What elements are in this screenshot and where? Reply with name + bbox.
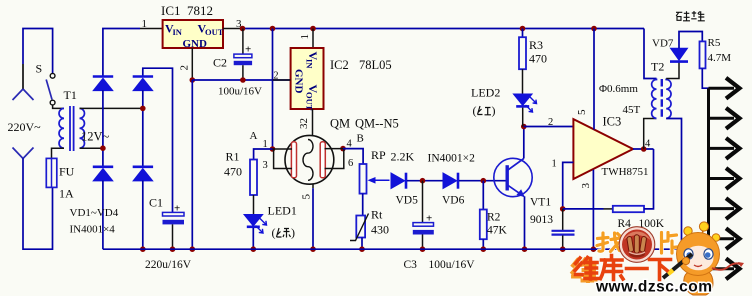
transformer T2 <box>651 60 671 120</box>
junction gnd line bus <box>190 246 196 252</box>
wire top bus down to node A <box>272 29 274 150</box>
svg-text:RP: RP <box>371 148 386 162</box>
watermark mascot <box>663 222 744 295</box>
diode VD5 <box>391 173 418 207</box>
svg-text:5: 5 <box>576 109 588 115</box>
transformer T1 <box>59 88 84 151</box>
wire node A pin3 stub <box>274 149 292 169</box>
wire VD5 to VD6 <box>407 180 443 182</box>
wire R1 to LED1 <box>253 195 255 215</box>
potentiometer RP 2.2K <box>360 148 415 194</box>
svg-text:OUT: OUT <box>305 92 315 111</box>
capacitor at IC3 pin1 <box>552 209 575 249</box>
svg-text:QM: QM <box>330 117 350 131</box>
capacitor C1 220u/16V <box>149 196 184 250</box>
watermark zhao xin pian logo <box>597 227 677 263</box>
junction Rt bus <box>359 246 365 252</box>
transistor VT1 9013 <box>494 158 553 226</box>
wire sensor bottom lead to bus <box>312 184 314 188</box>
svg-text:12V~: 12V~ <box>81 130 110 144</box>
wire VD7 anode to R5 <box>679 32 702 49</box>
svg-text:2: 2 <box>548 117 553 128</box>
svg-text:IN: IN <box>173 27 183 37</box>
svg-text:100u/16V: 100u/16V <box>218 86 262 98</box>
LED2 red <box>471 86 537 127</box>
svg-text:1A: 1A <box>59 187 74 201</box>
svg-text:TWH8751: TWH8751 <box>602 166 649 178</box>
ground bus <box>103 248 682 250</box>
badge red circle chip logo <box>619 227 655 263</box>
svg-text:IC3: IC3 <box>603 115 622 129</box>
svg-text:R3: R3 <box>529 38 543 52</box>
junction sensor bottom bus <box>310 246 316 252</box>
wire node B to RP top <box>343 149 363 164</box>
IC2 78L05 regulator <box>291 48 392 111</box>
node A junction <box>270 146 276 152</box>
svg-text:47K: 47K <box>487 225 508 237</box>
wire gnd node to IC2 pin2 <box>192 79 290 81</box>
discharge electrode bus with arrows <box>709 78 740 279</box>
svg-text:FU: FU <box>59 165 75 179</box>
svg-text:C1: C1 <box>149 196 163 210</box>
diode VD3 bridge col1 bottom <box>93 167 113 181</box>
wire R3 to LED2 <box>522 69 524 94</box>
top bus +12V <box>243 28 645 30</box>
capacitor C3 100u/16V <box>413 181 434 250</box>
thermistor Rt 430 <box>350 208 389 241</box>
wire IC3 pin5 <box>593 29 595 130</box>
wire bridge col1 top to IC1 pin1 <box>103 29 140 77</box>
wire R5 to electrode bus <box>702 68 708 88</box>
wire sensor pin4 stub to node B <box>325 148 344 150</box>
svg-text:100u/16V: 100u/16V <box>429 259 476 271</box>
wire IC1 pin2 GND down <box>191 48 193 80</box>
svg-text:470: 470 <box>529 52 547 66</box>
wire T1 secondary top to bridge col2 midpoint <box>80 107 143 109</box>
svg-text:VD6: VD6 <box>442 195 465 207</box>
junction output T2 primary <box>641 146 647 152</box>
wire VD6 to VT1 base <box>459 180 506 182</box>
wire pin1 node to R4 <box>563 208 604 210</box>
junction R2 bus <box>481 246 487 252</box>
junction col1 midpoint <box>100 145 106 151</box>
svg-text:QM--N5: QM--N5 <box>355 117 399 131</box>
plug top prong <box>13 64 34 100</box>
wire gnd node down to bus <box>191 80 193 249</box>
wire IC2 pin1 lead <box>312 29 314 49</box>
svg-text:9013: 9013 <box>530 214 553 226</box>
svg-text:3: 3 <box>263 160 268 171</box>
svg-text:OUT: OUT <box>205 27 224 37</box>
resistor R5 4.7M <box>700 37 732 68</box>
junction C3 node <box>420 178 426 184</box>
wire node A pin1 stub <box>273 148 293 150</box>
diode VD2 bridge col2 top <box>133 77 153 91</box>
wire bridge col2 bottom to bus <box>142 181 144 250</box>
wire sensor pin6 stub <box>325 149 344 169</box>
svg-text:IN4001×4: IN4001×4 <box>70 224 116 236</box>
diode VD4 bridge col2 bottom <box>133 167 153 181</box>
svg-text:3: 3 <box>580 183 592 189</box>
svg-text:IC2: IC2 <box>330 58 349 72</box>
svg-text:B: B <box>357 133 364 145</box>
junction VT1 emitter bus <box>522 246 528 252</box>
wire T2 secondary bottom down <box>666 119 681 250</box>
svg-text:32: 32 <box>298 118 310 129</box>
junction col2 midpoint <box>140 106 146 112</box>
svg-text:1: 1 <box>142 18 148 30</box>
junction IC3 pin1 node <box>560 206 566 212</box>
svg-text:C3: C3 <box>404 259 418 271</box>
junction IC1 gnd node <box>190 77 196 83</box>
wire T2 secondary top to VD7 <box>666 63 679 79</box>
resistor R1 470 <box>224 150 257 196</box>
op-amp IC3 TWH8751 <box>573 115 648 180</box>
junction LED1 bus <box>251 246 257 252</box>
junction pin3 bus <box>591 246 597 252</box>
wire node A to R1 <box>254 149 273 160</box>
svg-text:7812: 7812 <box>187 3 213 18</box>
svg-text:GND: GND <box>183 38 208 50</box>
wire IC2 pin2 black segment <box>273 79 291 81</box>
wire bridge col2 middle <box>142 90 144 167</box>
svg-text:): ) <box>492 104 496 118</box>
svg-text:IC1: IC1 <box>161 3 181 18</box>
wire LED2 node to IC3 pin2 <box>524 126 574 128</box>
LED1 green <box>244 204 297 250</box>
svg-text:VD5: VD5 <box>396 195 419 207</box>
switch S <box>36 62 55 106</box>
svg-text:2: 2 <box>274 71 279 82</box>
wire VT1 collector up <box>523 127 525 159</box>
node B junction <box>340 146 346 152</box>
svg-text:www.dzsc.com: www.dzsc.com <box>595 279 713 296</box>
svg-text:VT1: VT1 <box>530 197 551 209</box>
wire IC2 pin3 to sensor top <box>312 109 314 136</box>
svg-text:(: ( <box>272 226 276 240</box>
plug bottom prong <box>13 148 34 159</box>
svg-text:470: 470 <box>224 165 242 179</box>
svg-text:Rt: Rt <box>371 208 383 222</box>
svg-text:6: 6 <box>348 158 353 169</box>
svg-text:IN: IN <box>305 59 315 69</box>
svg-text:45T: 45T <box>623 104 641 116</box>
svg-text:220u/16V: 220u/16V <box>145 259 192 271</box>
wire plug bottom to ground bus <box>23 159 53 250</box>
svg-text:Φ0.6mm: Φ0.6mm <box>599 83 638 95</box>
svg-text:5: 5 <box>301 194 313 200</box>
svg-text:VD1~VD4: VD1~VD4 <box>70 207 119 219</box>
wire IC1 pin3 to top bus start <box>223 28 243 30</box>
junction top bus R3 <box>520 26 526 32</box>
svg-text:T2: T2 <box>651 60 664 74</box>
wire RP bottom to Rt <box>362 194 364 216</box>
wire top-left loop plug to switch <box>23 29 53 74</box>
junction C1 bus <box>170 246 176 252</box>
junction cap bus <box>560 246 566 252</box>
svg-text:R5: R5 <box>708 37 721 49</box>
wire T1 secondary bottom to bridge col1 midpoint <box>80 147 103 149</box>
junction C3 bus <box>420 246 426 252</box>
label silicon stack Chinese <box>676 11 705 21</box>
junction top bus node A line <box>270 26 276 32</box>
fuse FU 1A <box>46 158 74 200</box>
svg-text:LED2: LED2 <box>471 86 500 100</box>
wire R4 right to output node <box>644 149 654 209</box>
svg-text:LED1: LED1 <box>268 204 297 218</box>
svg-text:T1: T1 <box>64 88 77 102</box>
glyph red Chinese <box>478 106 492 115</box>
svg-text:R2: R2 <box>487 212 501 224</box>
junction top bus IC2 pin1 <box>310 26 316 32</box>
gas sensor QM-N5 <box>285 135 334 184</box>
IC1 7812 regulator <box>161 3 224 50</box>
wire T2 primary bottom to output <box>644 119 657 150</box>
junction C2 bottom <box>240 77 246 83</box>
resistor R4 100K <box>613 206 665 230</box>
resistor R2 47K <box>480 181 508 250</box>
wire VT1 emitter to bus <box>524 196 526 249</box>
wire IC3 output pin4 <box>633 148 654 150</box>
watermark weiku yixia red text <box>573 256 671 282</box>
svg-text:VD7: VD7 <box>652 38 674 50</box>
junction R2 node <box>481 178 487 184</box>
wire T1 primary bottom to fuse <box>52 148 65 158</box>
diode VD6 <box>442 173 465 207</box>
wire bridge col1 middle <box>102 90 104 167</box>
wire IC3 pin3 to bus <box>592 170 594 250</box>
wire bridge col2 top to C1 top <box>143 68 173 212</box>
svg-text:S: S <box>36 62 43 76</box>
junction col2 bus <box>140 246 146 252</box>
svg-text:): ) <box>291 226 295 240</box>
svg-text:220V~: 220V~ <box>8 120 42 134</box>
junction top bus C2 <box>240 26 246 32</box>
glyph green Chinese <box>277 228 291 238</box>
svg-text:1: 1 <box>299 34 311 40</box>
svg-text:430: 430 <box>371 223 389 237</box>
svg-text:R1: R1 <box>226 150 240 164</box>
svg-text:78L05: 78L05 <box>359 58 392 72</box>
junction top bus IC3 pin5 <box>591 26 597 32</box>
resistor R3 470 <box>519 29 547 70</box>
wire Rt bottom to bus <box>361 238 363 250</box>
diode VD7 silicon stack <box>652 38 688 62</box>
svg-text:1: 1 <box>552 159 557 170</box>
wire IC3 pin1 <box>563 162 574 209</box>
svg-text:C2: C2 <box>213 56 227 70</box>
wire switch to T1 primary top <box>53 105 64 108</box>
capacitor C2 100u/16V <box>213 29 252 81</box>
junction collector LED2 node <box>521 124 527 130</box>
svg-text:2.2K: 2.2K <box>391 150 415 164</box>
wire top bus corner to T2 primary top <box>644 29 657 79</box>
svg-text:A: A <box>250 130 258 142</box>
svg-text:GND: GND <box>293 69 305 94</box>
svg-text:2: 2 <box>179 65 191 71</box>
svg-text:4.7M: 4.7M <box>708 52 732 64</box>
svg-text:(: ( <box>473 104 477 118</box>
wire bridge col1 bottom to bus <box>102 181 104 250</box>
svg-text:IN4001×2: IN4001×2 <box>428 153 476 165</box>
diode VD1 bridge col1 top <box>93 77 113 91</box>
